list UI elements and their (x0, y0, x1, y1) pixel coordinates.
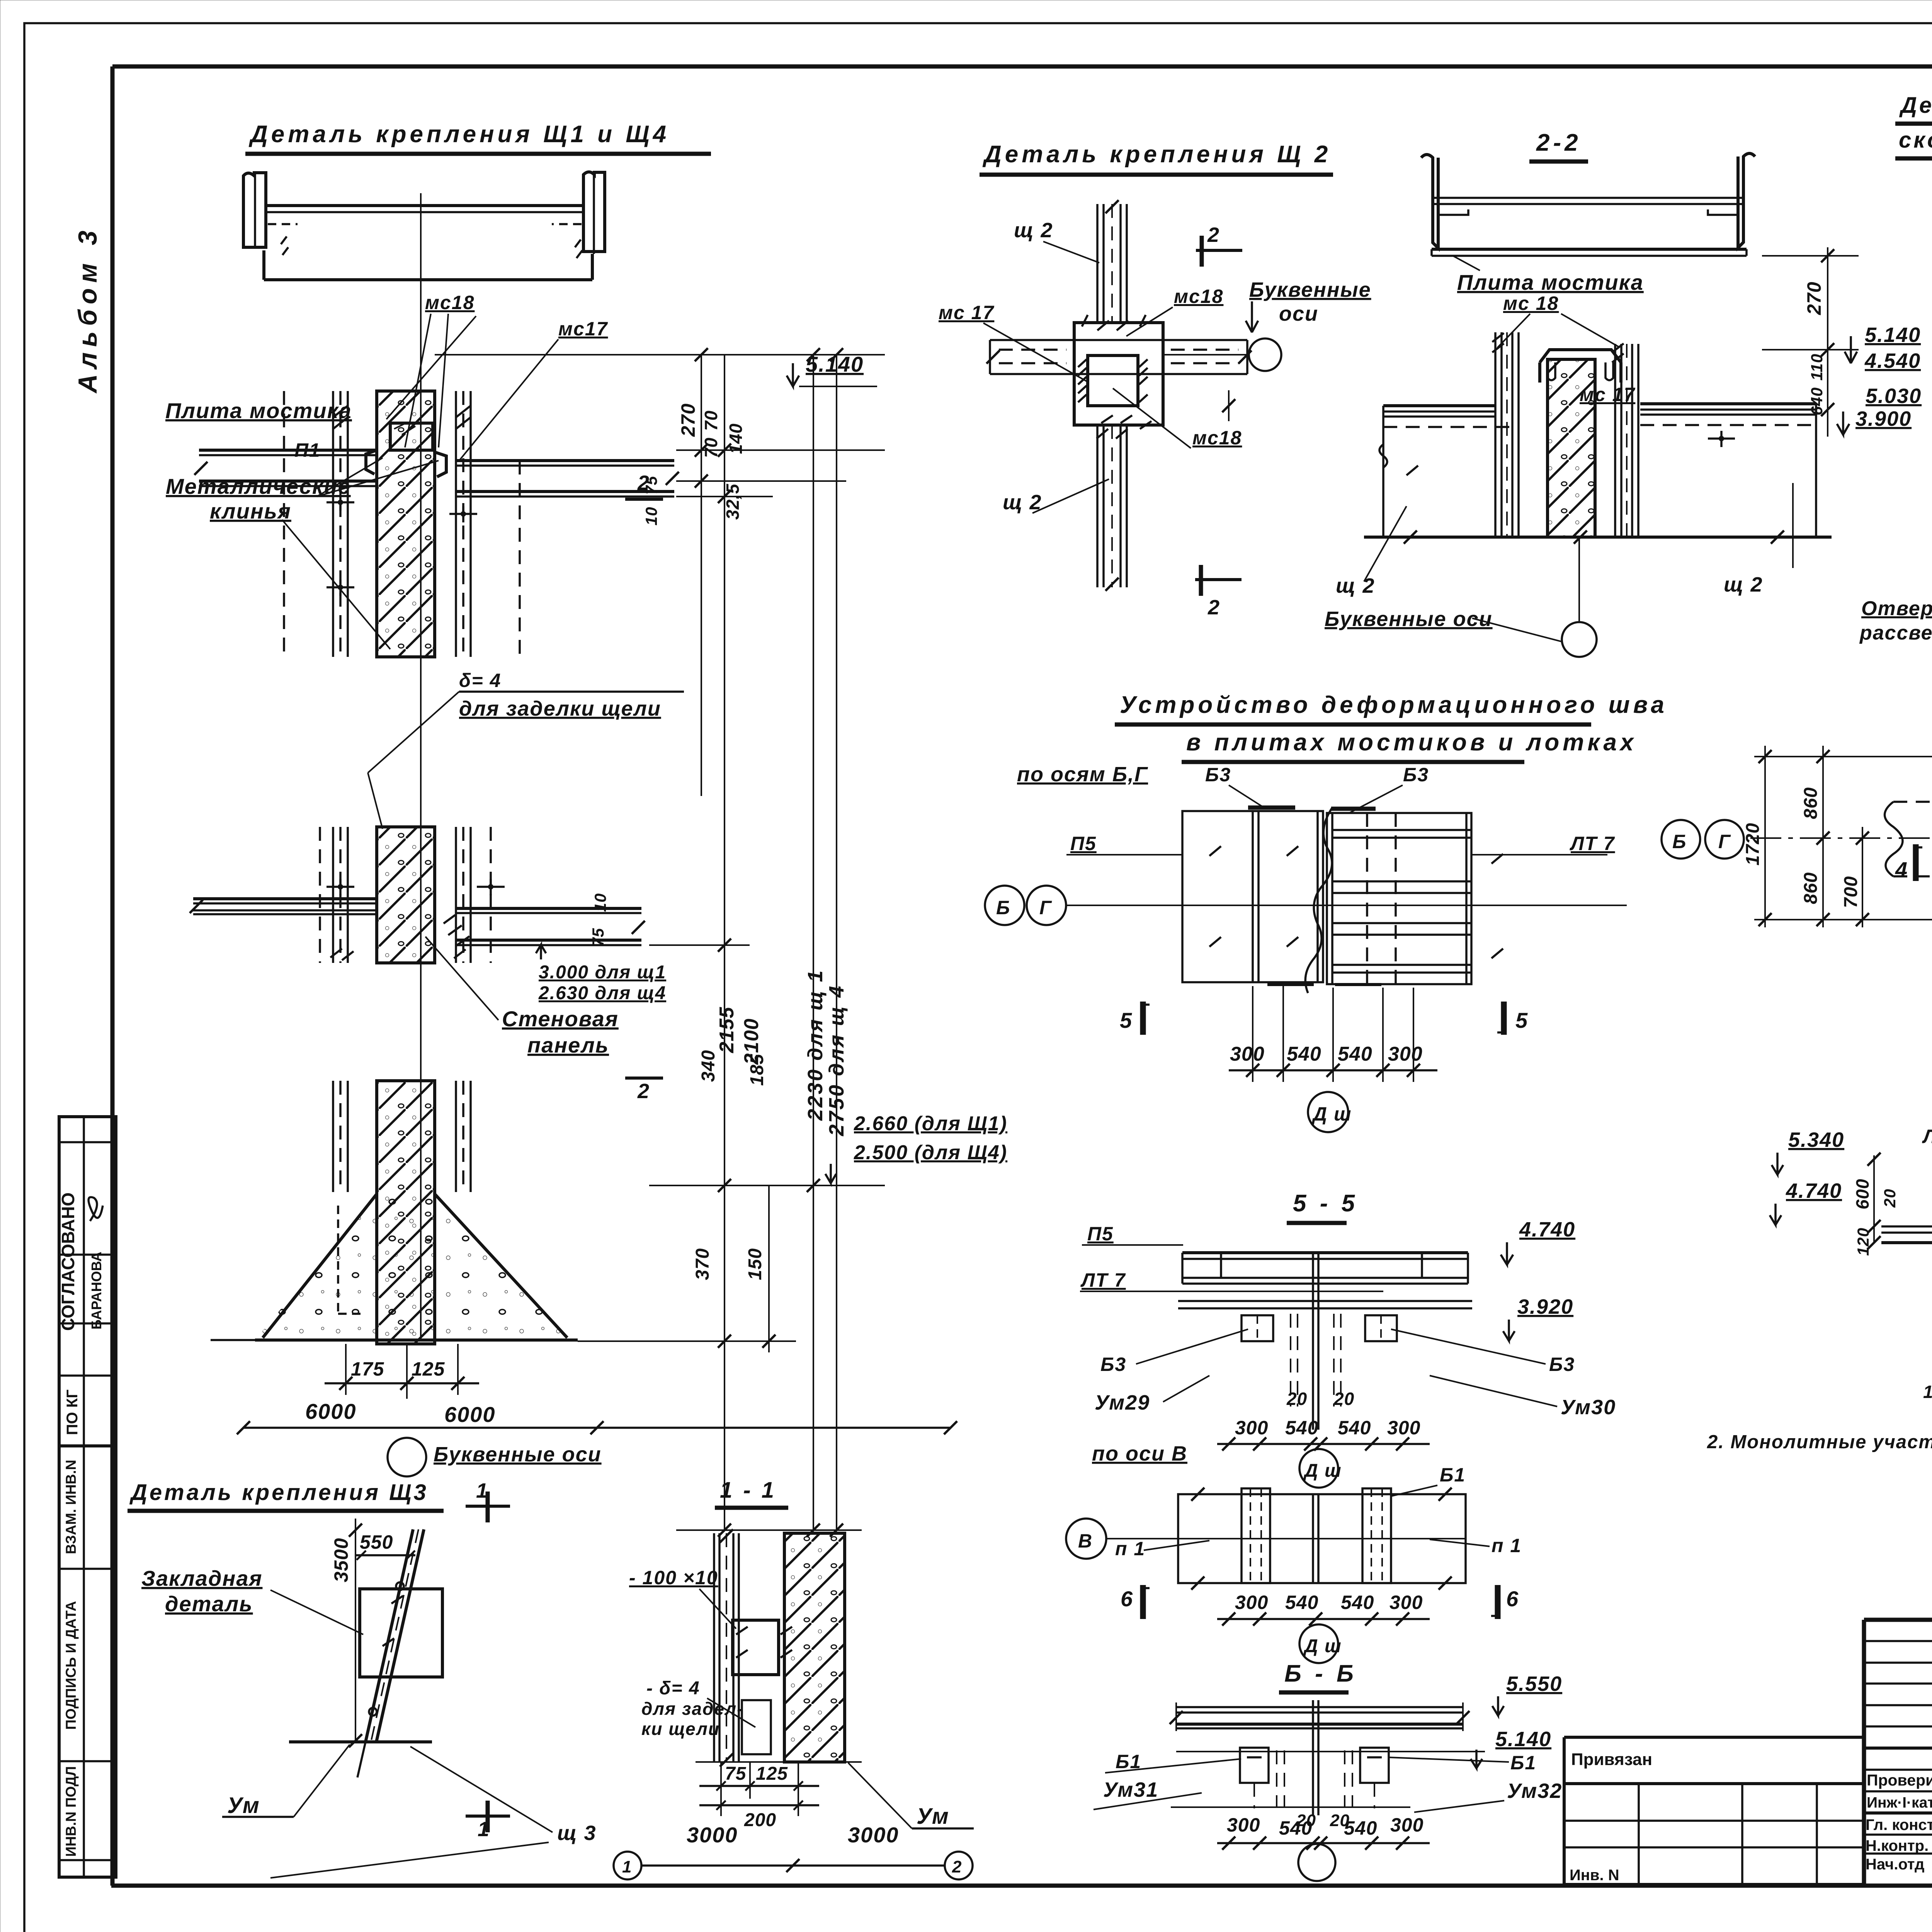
svg-text:3.900: 3.900 (1855, 407, 1912, 430)
svg-text:1 - 1: 1 - 1 (720, 1478, 776, 1503)
svg-text:для задел-: для задел- (641, 1699, 744, 1719)
svg-text:300: 300 (1235, 1592, 1268, 1613)
svg-text:75: 75 (725, 1764, 747, 1784)
svg-text:370: 370 (692, 1248, 713, 1280)
svg-text:4: 4 (1895, 857, 1908, 882)
svg-text:6000: 6000 (444, 1402, 496, 1427)
svg-text:щ 2: щ 2 (1724, 573, 1763, 596)
svg-text:1720: 1720 (1743, 823, 1763, 866)
svg-text:мс 17: мс 17 (1580, 384, 1635, 405)
svg-text:5.340: 5.340 (1788, 1128, 1844, 1151)
svg-text:рассверлить по месту: рассверлить по месту (1859, 622, 1932, 644)
svg-text:20: 20 (1286, 1389, 1307, 1409)
svg-text:340: 340 (698, 1050, 719, 1082)
svg-text:Б1: Б1 (1510, 1752, 1536, 1774)
svg-text:Ум30: Ум30 (1561, 1396, 1616, 1419)
svg-text:540: 540 (1285, 1592, 1318, 1613)
svg-text:600: 600 (1852, 1179, 1872, 1209)
svg-text:540: 540 (1338, 1417, 1371, 1439)
svg-text:2: 2 (1207, 223, 1219, 247)
svg-text:мс 18: мс 18 (1503, 293, 1559, 314)
svg-text:2: 2 (1207, 596, 1220, 619)
svg-text:2-2: 2-2 (1536, 129, 1582, 156)
svg-text:по оси В: по оси В (1092, 1442, 1187, 1465)
svg-text:2: 2 (637, 1080, 650, 1103)
svg-text:Б3: Б3 (1403, 764, 1429, 786)
svg-text:270: 270 (1803, 282, 1825, 315)
svg-text:20: 20 (1333, 1389, 1354, 1409)
svg-text:2230 для щ 1: 2230 для щ 1 (804, 969, 827, 1121)
svg-text:мс 17: мс 17 (939, 302, 994, 323)
svg-text:5.030: 5.030 (1866, 384, 1922, 408)
svg-text:п 1: п 1 (1492, 1535, 1522, 1556)
svg-text:Б: Б (1672, 831, 1687, 852)
svg-text:Привязан: Привязан (1571, 1750, 1652, 1769)
svg-text:540: 540 (1341, 1592, 1374, 1613)
svg-text:панель: панель (527, 1033, 609, 1057)
svg-text:1: 1 (622, 1857, 632, 1876)
svg-text:щ 2: щ 2 (1003, 491, 1042, 514)
svg-text:ПО КГ: ПО КГ (64, 1389, 81, 1435)
svg-text:860: 860 (1801, 787, 1821, 819)
svg-text:Плита мостика: Плита мостика (1457, 270, 1644, 294)
svg-text:щ 2: щ 2 (1014, 219, 1053, 242)
svg-text:П5: П5 (1070, 833, 1097, 854)
svg-text:540: 540 (1338, 1043, 1372, 1065)
svg-text:3500: 3500 (330, 1538, 352, 1582)
svg-text:75: 75 (642, 476, 660, 495)
svg-text:300: 300 (1388, 1043, 1423, 1065)
svg-text:Буквенные: Буквенные (1249, 278, 1371, 301)
svg-text:в плитах мостиков и лотках: в плитах мостиков и лотках (1186, 729, 1637, 756)
svg-text:Ум: Ум (917, 1804, 949, 1829)
svg-text:2.630 для щ4: 2.630 для щ4 (538, 983, 666, 1003)
svg-text:540: 540 (1285, 1417, 1318, 1439)
svg-text:п 1: п 1 (1115, 1538, 1145, 1560)
svg-text:2.500 (для Щ4): 2.500 (для Щ4) (854, 1141, 1007, 1164)
svg-text:3.000 для щ1: 3.000 для щ1 (539, 962, 666, 983)
svg-text:П5: П5 (1087, 1223, 1114, 1245)
svg-text:ЛТ 7: ЛТ 7 (1570, 833, 1615, 854)
svg-text:2750 для щ 4: 2750 для щ 4 (825, 985, 848, 1136)
svg-text:Гл. констр: Гл. констр (1866, 1816, 1932, 1833)
svg-text:860: 860 (1801, 872, 1821, 904)
svg-text:Деталь крепления Щ 2: Деталь крепления Щ 2 (982, 141, 1331, 168)
svg-text:5.550: 5.550 (1506, 1672, 1562, 1696)
svg-text:Деталь установки пластины мс22: Деталь установки пластины мс22 под (1899, 93, 1932, 118)
svg-text:300: 300 (1230, 1043, 1265, 1065)
svg-text:5.140: 5.140 (1495, 1728, 1551, 1751)
svg-text:200: 200 (744, 1810, 776, 1830)
svg-text:5 - 5: 5 - 5 (1293, 1190, 1358, 1217)
svg-text:- δ= 4: - δ= 4 (646, 1678, 700, 1699)
svg-text:Альбом 3: Альбом 3 (73, 225, 102, 394)
svg-text:Закладная: Закладная (141, 1566, 262, 1590)
svg-text:4.540: 4.540 (1864, 349, 1921, 372)
svg-text:клинья: клинья (210, 499, 291, 523)
svg-text:270: 270 (677, 403, 699, 437)
svg-text:2155: 2155 (716, 1007, 738, 1053)
svg-text:Б3: Б3 (1205, 764, 1231, 786)
svg-text:Б1: Б1 (1440, 1464, 1466, 1486)
svg-text:300: 300 (1389, 1592, 1423, 1613)
svg-text:мс18: мс18 (425, 292, 474, 313)
svg-text:СОГЛАСОВАНО: СОГЛАСОВАНО (58, 1192, 78, 1331)
svg-text:Д ш: Д ш (1303, 1636, 1342, 1656)
svg-text:Стеновая: Стеновая (502, 1007, 619, 1031)
svg-text:деталь: деталь (165, 1592, 253, 1616)
svg-text:300: 300 (1235, 1417, 1268, 1439)
svg-text:Г: Г (1039, 897, 1052, 918)
svg-text:300: 300 (1390, 1814, 1423, 1836)
svg-text:БАРАНОВА: БАРАНОВА (88, 1252, 104, 1330)
svg-text:Ум31: Ум31 (1103, 1778, 1158, 1801)
svg-text:3.920: 3.920 (1517, 1295, 1573, 1318)
svg-text:1. Местоположение площадок: 1. Местоположение площадок мп1 и пластин… (1923, 1382, 1932, 1402)
svg-text:3000: 3000 (848, 1823, 899, 1847)
svg-text:Инж·I·кат.: Инж·I·кат. (1867, 1794, 1932, 1811)
svg-text:Б3: Б3 (1549, 1354, 1575, 1375)
svg-text:32,5: 32,5 (723, 483, 743, 520)
svg-text:2. Монолитные участки стен: 2. Монолитные участки стен Ум 2 9 ÷ Ум 3… (1707, 1432, 1932, 1452)
svg-text:- 100 ×10: - 100 ×10 (629, 1567, 718, 1588)
svg-text:Нач.отд: Нач.отд (1866, 1856, 1924, 1873)
svg-text:140: 140 (726, 423, 746, 454)
svg-text:150: 150 (745, 1248, 765, 1280)
svg-text:ВЗАМ. ИНВ.N: ВЗАМ. ИНВ.N (63, 1460, 79, 1554)
svg-text:70: 70 (701, 410, 721, 431)
svg-text:Ум29: Ум29 (1095, 1391, 1150, 1414)
svg-text:ИНВ.N ПОДЛ: ИНВ.N ПОДЛ (63, 1766, 79, 1857)
svg-text:Инв. N: Инв. N (1570, 1867, 1619, 1884)
svg-text:щ 3: щ 3 (557, 1821, 597, 1845)
svg-text:ПОДПИСЬ И ДАТА: ПОДПИСЬ И ДАТА (63, 1601, 79, 1730)
svg-text:Деталь крепления Щ1 и Щ4: Деталь крепления Щ1 и Щ4 (248, 121, 670, 148)
svg-text:Б3: Б3 (1100, 1354, 1126, 1375)
svg-text:щ 2: щ 2 (1336, 574, 1375, 597)
svg-text:Б - Б: Б - Б (1284, 1660, 1357, 1687)
svg-text:Д ш: Д ш (1311, 1103, 1352, 1125)
svg-text:10: 10 (591, 893, 609, 912)
svg-text:550: 550 (360, 1531, 393, 1553)
svg-text:Деталь крепления Щ3: Деталь крепления Щ3 (129, 1480, 429, 1505)
svg-text:Отверстия в плите: Отверстия в плите (1861, 597, 1932, 620)
svg-text:скользящую опору воздуховоды: скользящую опору воздуховоды (1899, 128, 1932, 153)
svg-text:мс17: мс17 (558, 318, 608, 340)
svg-text:Устройство деформационного шва: Устройство деформационного шва (1120, 692, 1668, 718)
svg-text:2.660 (для Щ1): 2.660 (для Щ1) (854, 1112, 1007, 1135)
svg-text:ЛТ 7: ЛТ 7 (1080, 1269, 1126, 1291)
svg-text:20: 20 (1881, 1189, 1899, 1208)
svg-text:Д ш: Д ш (1303, 1461, 1342, 1481)
svg-text:70: 70 (701, 437, 721, 458)
svg-text:В: В (1078, 1530, 1093, 1552)
svg-text:4.740: 4.740 (1786, 1179, 1842, 1202)
svg-text:6000: 6000 (305, 1399, 357, 1423)
svg-text:Л2: Л2 (1922, 1126, 1932, 1147)
svg-text:мс18: мс18 (1174, 286, 1223, 307)
svg-text:2: 2 (952, 1857, 962, 1876)
svg-text:для заделки щели: для заделки щели (459, 697, 661, 720)
svg-text:Ум: Ум (227, 1793, 260, 1818)
svg-text:5: 5 (1120, 1008, 1132, 1032)
svg-text:700: 700 (1841, 876, 1861, 908)
svg-text:6: 6 (1121, 1587, 1133, 1611)
svg-text:185: 185 (747, 1054, 767, 1086)
svg-text:по осям Б,Г: по осям Б,Г (1017, 763, 1148, 786)
svg-text:Проверил: Проверил (1867, 1771, 1932, 1789)
svg-text:Ум32: Ум32 (1507, 1779, 1562, 1803)
svg-text:ки щели: ки щели (641, 1719, 720, 1739)
svg-text:5.140: 5.140 (1865, 323, 1921, 347)
svg-text:5: 5 (1515, 1008, 1528, 1032)
svg-text:3000: 3000 (687, 1823, 738, 1847)
svg-text:75: 75 (589, 928, 607, 947)
svg-text:300: 300 (1227, 1814, 1260, 1836)
svg-text:δ= 4: δ= 4 (459, 670, 501, 691)
svg-text:Б: Б (996, 897, 1010, 918)
svg-text:Буквенные оси: Буквенные оси (434, 1443, 602, 1466)
svg-text:640: 640 (1808, 387, 1826, 415)
svg-text:175: 175 (351, 1358, 384, 1380)
svg-text:Буквенные оси: Буквенные оси (1325, 607, 1493, 631)
svg-text:оси: оси (1279, 302, 1318, 325)
svg-text:4.740: 4.740 (1519, 1218, 1575, 1241)
svg-text:Плита мостика: Плита мостика (165, 398, 352, 423)
svg-text:Г: Г (1718, 831, 1731, 852)
svg-text:540: 540 (1344, 1817, 1377, 1839)
svg-text:125: 125 (756, 1764, 788, 1784)
svg-text:540: 540 (1279, 1817, 1312, 1839)
svg-text:110: 110 (1808, 354, 1826, 381)
svg-text:120: 120 (1854, 1228, 1872, 1256)
svg-text:540: 540 (1287, 1043, 1321, 1065)
svg-text:10: 10 (642, 507, 660, 526)
svg-text:Н.контр.: Н.контр. (1866, 1837, 1929, 1854)
svg-text:300: 300 (1387, 1417, 1420, 1439)
svg-text:мс18: мс18 (1192, 427, 1242, 449)
svg-text:125: 125 (412, 1358, 445, 1380)
svg-text:6: 6 (1506, 1587, 1519, 1611)
